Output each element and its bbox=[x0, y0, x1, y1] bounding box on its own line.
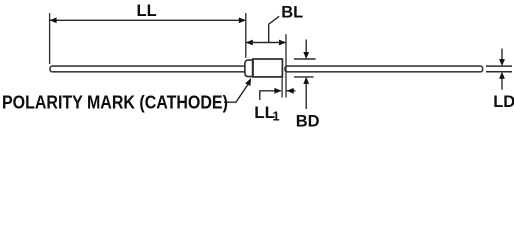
arrowhead LL left bbox=[50, 17, 57, 23]
leader from BL label bbox=[269, 16, 280, 42]
extension line at lead emergence point bbox=[285, 34, 287, 97]
svg-text:1: 1 bbox=[272, 108, 279, 123]
LD tick bottom bbox=[486, 71, 512, 73]
arrowhead BL right bbox=[279, 40, 286, 46]
arrowhead LL1 left (points right) bbox=[274, 88, 281, 94]
dimension line BL bbox=[246, 42, 286, 44]
BD lower arrow line (points up) bbox=[305, 83, 307, 110]
arrowhead BL left bbox=[246, 40, 253, 46]
svg-text:LL: LL bbox=[137, 2, 157, 20]
extension line at left lead tip bbox=[49, 13, 51, 64]
arrowhead LL1 right (points left) bbox=[287, 88, 294, 94]
dimension line LL bbox=[50, 19, 246, 21]
LD tick top bbox=[486, 65, 512, 67]
arrowhead LL right bbox=[239, 17, 246, 23]
BD tick at body bottom bbox=[294, 76, 314, 78]
extension line at body left (band) bbox=[245, 13, 247, 58]
extension line at body right edge (extended below) bbox=[281, 78, 283, 98]
arrowhead polarity leader (points up-right at band) bbox=[245, 78, 251, 86]
dimension line LL1 left segment with leader bbox=[260, 91, 281, 100]
LD upper arrow line (points down) bbox=[501, 49, 503, 61]
arrowhead BD up bbox=[303, 77, 309, 84]
diode body bbox=[253, 59, 282, 77]
right lead wire bbox=[285, 66, 483, 72]
BD tick at body top bbox=[294, 58, 316, 60]
svg-text:BL: BL bbox=[281, 3, 303, 21]
arrowhead LD up bbox=[499, 72, 505, 79]
polarity band (cathode mark) bbox=[245, 60, 253, 77]
arrowhead BD down bbox=[303, 52, 309, 59]
left lead wire bbox=[50, 66, 246, 72]
arrowhead LD down bbox=[499, 59, 505, 66]
svg-text:BD: BD bbox=[296, 113, 320, 130]
dimension line LL1 right segment bbox=[287, 90, 296, 92]
svg-text:LD: LD bbox=[493, 93, 514, 111]
LD lower arrow line (points up) bbox=[501, 78, 503, 90]
BD upper arrow line (points down) bbox=[305, 40, 307, 54]
leader from POLARITY MARK text to band bbox=[224, 85, 248, 103]
svg-text:POLARITY MARK (CATHODE): POLARITY MARK (CATHODE) bbox=[2, 91, 228, 112]
